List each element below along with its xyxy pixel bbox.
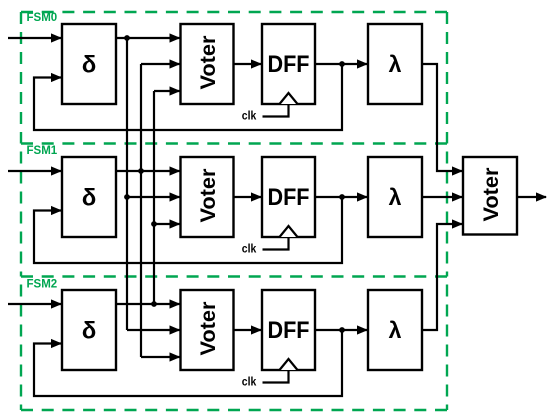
junction FSM0 DFF output bbox=[339, 61, 345, 67]
svg-text:clk: clk bbox=[242, 244, 257, 256]
svg-text:DFF: DFF bbox=[268, 184, 310, 211]
svg-text:DFF: DFF bbox=[268, 317, 310, 344]
block FSM0 DFF bbox=[262, 24, 315, 104]
dashed boundary box FSM0 bbox=[21, 12, 447, 144]
wire FSM2 DFF output to lambda bbox=[315, 329, 367, 331]
junction bus C to FSM1 voter input 3 bbox=[151, 221, 157, 227]
svg-text:δ: δ bbox=[82, 185, 97, 212]
svg-text:clk: clk bbox=[242, 111, 257, 123]
wire FSM2 feedback from DFF output to delta bbox=[34, 330, 342, 396]
wire final voter output bbox=[517, 196, 546, 198]
svg-text:λ: λ bbox=[389, 184, 402, 210]
svg-text:Voter: Voter bbox=[479, 167, 503, 222]
wire FSM2 voter output to DFF bbox=[234, 329, 262, 331]
wire FSM2 delta output to voter input 1 bbox=[116, 303, 180, 305]
svg-text:λ: λ bbox=[389, 317, 402, 343]
svg-text:Voter: Voter bbox=[196, 168, 220, 223]
wire FSM2 voter input 2 bbox=[127, 329, 180, 331]
wire FSM1 voter input 2 bbox=[127, 196, 180, 198]
wire FSM2 lambda output to final voter input 3 bbox=[422, 224, 462, 330]
clock edge triangle FSM2 DFF bbox=[280, 359, 298, 370]
wire FSM0 primary input bbox=[8, 37, 61, 39]
wire bus C (FSM2 delta output, vertical) bbox=[153, 91, 155, 304]
wire FSM1 voter input 3 bbox=[154, 223, 180, 225]
block FSM1 DFF bbox=[262, 157, 315, 237]
wire FSM0 feedback from DFF output to delta bbox=[34, 64, 342, 130]
junction FSM1 delta output to bus B bbox=[138, 168, 144, 174]
junction FSM2 delta output to bus C bbox=[151, 301, 157, 307]
svg-text:Voter: Voter bbox=[196, 301, 220, 356]
block FSM0 voter bbox=[181, 24, 234, 104]
wire FSM0 voter output to DFF bbox=[234, 63, 262, 65]
wire FSM1 DFF output to lambda bbox=[315, 196, 367, 198]
wire FSM0 lambda output to final voter input 1 bbox=[422, 64, 462, 171]
svg-text:λ: λ bbox=[389, 51, 402, 77]
block FSM2 voter bbox=[181, 290, 234, 370]
wire bus A (FSM0 delta output, vertical) bbox=[126, 38, 128, 330]
block FSM2 DFF bbox=[262, 290, 315, 370]
wire FSM1 primary input bbox=[8, 170, 61, 172]
wire FSM1 delta output to voter input 1 bbox=[116, 170, 180, 172]
svg-text:DFF: DFF bbox=[268, 51, 310, 78]
wire FSM1 lambda output to final voter input 2 bbox=[422, 196, 462, 198]
block FSM2 lambda (output logic) bbox=[368, 290, 422, 370]
block FSM1 voter bbox=[181, 157, 234, 237]
svg-text:FSM2: FSM2 bbox=[27, 279, 58, 291]
wire FSM1 clk bbox=[263, 237, 289, 250]
svg-text:FSM0: FSM0 bbox=[27, 12, 58, 24]
block FSM1 lambda (output logic) bbox=[368, 157, 422, 237]
wire FSM2 voter input 3 bbox=[141, 356, 180, 358]
clock edge triangle FSM0 DFF bbox=[280, 93, 298, 104]
wire FSM0 clk bbox=[263, 104, 289, 117]
svg-text:δ: δ bbox=[82, 52, 97, 79]
block final output voter bbox=[463, 157, 517, 235]
junction FSM2 DFF output bbox=[339, 327, 345, 333]
wire FSM0 voter input 3 bbox=[154, 90, 180, 92]
block FSM0 lambda (output logic) bbox=[368, 24, 422, 104]
junction bus A to FSM1 voter input 2 bbox=[124, 194, 130, 200]
wire FSM1 feedback from DFF output to delta bbox=[34, 197, 342, 263]
wire FSM2 primary input bbox=[8, 303, 61, 305]
block FSM0 delta (next-state logic) bbox=[62, 24, 116, 104]
wire FSM1 voter output to DFF bbox=[234, 196, 262, 198]
wire bus B (FSM1 delta output, vertical) bbox=[140, 64, 142, 357]
svg-text:FSM1: FSM1 bbox=[27, 145, 58, 157]
wire FSM0 DFF output to lambda bbox=[315, 63, 367, 65]
wire FSM0 voter input 2 bbox=[141, 63, 180, 65]
svg-text:clk: clk bbox=[242, 377, 257, 389]
block FSM2 delta (next-state logic) bbox=[62, 290, 116, 370]
block FSM1 delta (next-state logic) bbox=[62, 157, 116, 237]
wire FSM0 delta output to voter input 1 bbox=[116, 37, 180, 39]
wire FSM2 clk bbox=[263, 370, 289, 383]
clock edge triangle FSM1 DFF bbox=[280, 226, 298, 237]
dashed boundary box FSM1 bbox=[21, 144, 447, 277]
dashed boundary box FSM2 bbox=[21, 277, 447, 411]
svg-text:Voter: Voter bbox=[196, 35, 220, 90]
svg-text:δ: δ bbox=[82, 318, 97, 345]
junction FSM1 DFF output bbox=[339, 194, 345, 200]
junction FSM0 delta output to bus A bbox=[124, 35, 130, 41]
